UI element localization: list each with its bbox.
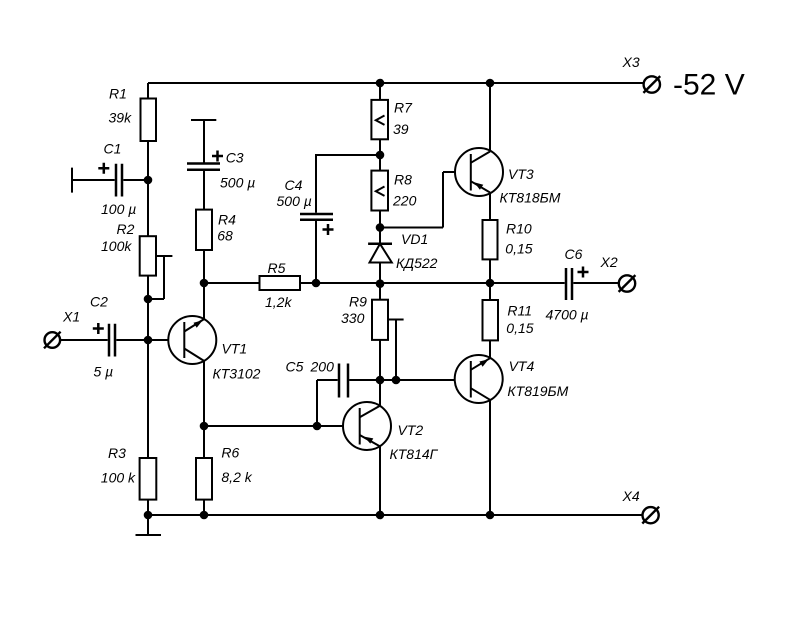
capacitor C2 [60,293,148,379]
resistor R8 [371,139,416,210]
transistor VT3 [455,83,561,220]
svg-text:200: 200 [309,358,334,374]
svg-text:100 µ: 100 µ [101,201,136,217]
svg-text:КТ819БМ: КТ819БМ [507,383,568,399]
svg-text:0,15: 0,15 [506,320,533,336]
svg-text:VD1: VD1 [401,231,428,247]
svg-text:C3: C3 [226,149,244,165]
svg-text:39k: 39k [109,109,133,125]
node: VT4 emitter bottom rail junction [486,511,495,520]
svg-text:C5: C5 [285,358,303,374]
resistor R4 [196,210,236,320]
svg-text:R2: R2 [117,221,135,237]
svg-text:R10: R10 [506,220,532,236]
capacitor C3 [187,120,255,210]
node: R2 tap junction [144,295,153,304]
terminal X2 [600,254,636,292]
svg-text:X2: X2 [600,254,618,270]
resistor R7 [371,83,413,139]
node: R8/VD1/VT3-base junction [376,223,385,232]
svg-text:39: 39 [393,121,409,137]
svg-text:КТ814Г: КТ814Г [389,446,438,462]
svg-text:R1: R1 [109,85,127,101]
node: R9 bottom junction [376,376,385,385]
ground [135,515,161,535]
svg-text:КТ818БМ: КТ818БМ [500,190,561,206]
resistor R10 [483,220,533,283]
svg-text:1,2k: 1,2k [265,294,292,310]
svg-text:X3: X3 [622,54,640,70]
wire: VT3 base wire [380,172,471,228]
capacitor C1 [72,140,148,217]
svg-text:R5: R5 [268,260,286,276]
node: top rail / R7 junction [376,79,385,88]
node: top rail / VT3 collector junction [486,79,495,88]
svg-text:C6: C6 [565,246,583,262]
svg-text:R11: R11 [507,303,532,319]
wire: left bias column (R1/R2/R3 chain) [147,83,149,515]
svg-text:100k: 100k [101,238,132,254]
node: R7/R8/C4 junction [376,151,385,160]
resistor R1 [109,85,157,141]
node: C1/R1/R2 junction [144,176,153,185]
svg-text:330: 330 [341,310,365,326]
wire: VT2 emitter / VT4 base wire [349,379,471,381]
node: C4 bottom junction [312,279,321,288]
capacitor C5 [285,358,348,426]
node: input node (C2/R2/R3/VT1 base) [144,336,153,345]
svg-text:0,15: 0,15 [505,240,532,256]
terminal X1 [44,308,80,348]
svg-text:4700 µ: 4700 µ [546,307,589,323]
capacitor C4 [277,155,381,283]
node: C5 / VT2 base wire junction [313,422,322,431]
wire: top -52V supply rail [148,82,644,84]
svg-text:C4: C4 [285,177,303,193]
svg-text:500 µ: 500 µ [220,174,255,190]
svg-text:5 µ: 5 µ [93,363,113,379]
transistor VT2 [343,380,439,515]
svg-text:R3: R3 [108,445,126,461]
svg-text:VT3: VT3 [508,166,534,182]
svg-text:220: 220 [392,192,417,208]
svg-text:68: 68 [217,227,233,243]
transistor VT4 [455,355,569,515]
resistor R6 [196,426,253,515]
svg-text:C2: C2 [90,293,108,309]
terminal X3 [622,54,661,93]
resistor R9 (trimmer with tap) [341,293,404,380]
wire: output node horizontal run [300,282,565,284]
resistor R11 [482,283,533,358]
svg-text:КТ3102: КТ3102 [212,365,260,381]
svg-text:R4: R4 [218,211,236,227]
node: VT2 collector bottom rail junction [376,511,385,520]
svg-text:R8: R8 [394,171,412,187]
resistor R2 (trimmer with tap) [101,221,172,299]
svg-text:C1: C1 [104,140,122,156]
node: bottom rail left junction [144,511,153,520]
svg-text:500 µ: 500 µ [277,193,312,209]
terminal X4 [621,488,659,524]
node: R6 bottom rail junction [200,511,209,520]
node: VT1 collector / R4 / R5 junction [200,279,209,288]
node: VT1 emitter / R6 junction [200,422,209,431]
svg-text:-52 V: -52 V [673,68,745,101]
svg-text:R9: R9 [349,293,367,309]
svg-text:8,2 k: 8,2 k [221,469,252,485]
wire: bottom rail [148,514,643,516]
svg-text:R7: R7 [394,99,413,115]
node: R9 tap junction [392,376,401,385]
svg-text:X1: X1 [62,308,80,324]
svg-text:КД522: КД522 [396,255,438,271]
node: output / R10 / R11 junction [486,279,495,288]
capacitor C6 [546,246,619,323]
svg-text:X4: X4 [621,488,639,504]
svg-text:VT1: VT1 [221,340,247,356]
resistor R5 [204,260,300,310]
resistor R3 [101,445,157,500]
svg-text:100 k: 100 k [101,469,136,485]
wire: VT2 base wire [204,425,360,427]
svg-text:VT4: VT4 [509,358,535,374]
svg-text:VT2: VT2 [397,422,423,438]
wire: VT1 base wire [148,339,184,341]
node: output wire / VD1 / R9 junction [376,279,385,288]
transistor VT1 [168,283,260,426]
diode VD1 [368,210,438,299]
svg-text:R6: R6 [221,444,239,460]
